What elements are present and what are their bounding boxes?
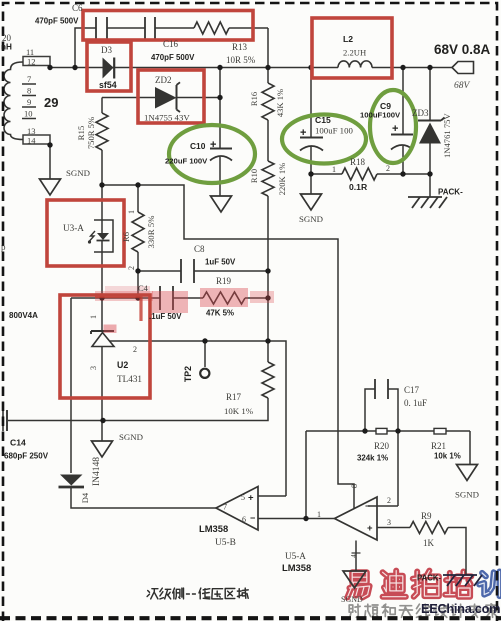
svg-text:3: 3 (387, 518, 391, 527)
svg-text:10: 10 (24, 109, 33, 119)
svg-text:SGND: SGND (119, 432, 143, 442)
svg-text:R19: R19 (216, 276, 232, 286)
svg-text:C17: C17 (404, 385, 420, 395)
svg-text:1N4761 75V: 1N4761 75V (442, 113, 452, 158)
svg-text:470pF 500V: 470pF 500V (151, 53, 195, 62)
svg-text:330R 5%: 330R 5% (146, 215, 156, 249)
svg-text:2.2UH: 2.2UH (343, 48, 366, 58)
svg-text:TP2: TP2 (183, 366, 193, 382)
svg-text:C10: C10 (190, 141, 206, 151)
svg-text:10K 1%: 10K 1% (224, 406, 254, 416)
svg-text:C8: C8 (194, 244, 205, 254)
svg-text:1: 1 (89, 315, 98, 319)
svg-text:IN4148: IN4148 (92, 457, 102, 486)
svg-text:−: − (250, 513, 255, 523)
svg-text:800V4A: 800V4A (9, 311, 38, 320)
svg-text:12: 12 (27, 57, 36, 67)
svg-text:L2: L2 (343, 34, 353, 44)
svg-text:R21: R21 (431, 441, 446, 451)
svg-text:13: 13 (27, 126, 36, 136)
svg-text:C15: C15 (315, 115, 331, 125)
svg-text:2: 2 (387, 496, 391, 505)
svg-text:3: 3 (89, 366, 98, 370)
svg-text:C14: C14 (10, 438, 26, 448)
svg-text:C6: C6 (72, 3, 83, 13)
svg-text:.1uF 50V: .1uF 50V (149, 312, 182, 321)
svg-text:750R 5%: 750R 5% (86, 117, 96, 149)
svg-text:D4: D4 (80, 492, 90, 503)
svg-text:8: 8 (350, 484, 359, 488)
svg-text:SGND: SGND (455, 490, 479, 500)
svg-text:1: 1 (127, 210, 136, 214)
svg-text:220K 1%: 220K 1% (277, 163, 287, 195)
svg-text:10R 5%: 10R 5% (226, 55, 256, 65)
svg-text:U5-A: U5-A (285, 551, 306, 561)
svg-text:7: 7 (223, 503, 227, 512)
svg-text:0.1R: 0.1R (349, 182, 368, 192)
svg-text:D3: D3 (101, 45, 112, 55)
svg-text:11: 11 (26, 47, 34, 57)
svg-text:PACK-: PACK- (438, 188, 463, 197)
svg-text:10k 1%: 10k 1% (434, 452, 461, 461)
svg-text:U3-A: U3-A (63, 223, 84, 233)
svg-text:6: 6 (242, 515, 246, 524)
svg-text:1uF 50V: 1uF 50V (205, 258, 236, 267)
svg-text:7: 7 (27, 74, 31, 84)
svg-text:+: + (367, 523, 373, 534)
svg-text:2: 2 (127, 266, 136, 270)
svg-text:nH: nH (1, 43, 12, 52)
svg-text:+: + (392, 123, 398, 135)
svg-text:sf54: sf54 (99, 80, 117, 90)
svg-text:PACK-: PACK- (417, 574, 442, 583)
svg-text:100uF100V: 100uF100V (360, 111, 401, 120)
svg-text:+: + (300, 127, 306, 139)
svg-text:TL431: TL431 (117, 374, 142, 384)
svg-text:1N4755 43V: 1N4755 43V (144, 113, 190, 123)
svg-text:C16: C16 (163, 39, 179, 49)
svg-text:SGND: SGND (66, 168, 90, 178)
svg-text:EEChina.com: EEChina.com (421, 601, 500, 616)
svg-text:680pF 250V: 680pF 250V (4, 452, 49, 461)
svg-text:LM358: LM358 (282, 562, 311, 573)
svg-text:SGND: SGND (299, 214, 323, 224)
svg-text:20: 20 (2, 33, 12, 43)
svg-text:1: 1 (332, 165, 336, 174)
svg-text:−: − (365, 501, 370, 511)
svg-text:R17: R17 (226, 392, 242, 402)
svg-text:R6: R6 (121, 232, 131, 242)
svg-text:14: 14 (27, 136, 36, 146)
svg-text:C9: C9 (380, 101, 391, 111)
svg-text:R13: R13 (232, 42, 248, 52)
svg-text:68V 0.8A: 68V 0.8A (434, 42, 491, 57)
svg-text:R15: R15 (76, 125, 86, 140)
svg-text:R20: R20 (374, 441, 390, 451)
svg-text:324k 1%: 324k 1% (357, 454, 388, 463)
svg-text:220uF 100V: 220uF 100V (165, 157, 208, 166)
svg-text:R9: R9 (421, 511, 432, 521)
svg-text:47K 5%: 47K 5% (206, 309, 234, 318)
svg-text:C4: C4 (138, 283, 149, 293)
svg-text:5: 5 (241, 493, 245, 502)
svg-text:p: p (1, 242, 6, 252)
svg-text:2: 2 (133, 345, 137, 354)
svg-text:1: 1 (317, 510, 321, 519)
svg-text:4: 4 (350, 554, 358, 558)
svg-text:29: 29 (44, 95, 58, 110)
svg-text:470pF 500V: 470pF 500V (35, 17, 79, 26)
svg-text:0. 1uF: 0. 1uF (404, 398, 427, 408)
svg-text:U5-B: U5-B (215, 538, 236, 548)
svg-text:LM358: LM358 (199, 523, 228, 534)
svg-text:8: 8 (27, 86, 31, 96)
svg-text:9: 9 (27, 97, 31, 107)
svg-text:43K 1%: 43K 1% (275, 89, 285, 117)
svg-text:R16: R16 (249, 92, 259, 106)
svg-text:ZD3: ZD3 (412, 108, 429, 118)
svg-text:+: + (210, 139, 216, 151)
svg-text:R10: R10 (249, 169, 259, 183)
svg-text:R18: R18 (350, 157, 366, 167)
svg-text:ZD2: ZD2 (155, 75, 172, 85)
svg-text:2: 2 (386, 164, 390, 173)
svg-text:+: + (248, 493, 254, 504)
svg-text:100uF 100: 100uF 100 (315, 126, 353, 136)
svg-text:SGND: SGND (341, 595, 363, 604)
svg-text:U2: U2 (117, 360, 128, 370)
svg-text:68V: 68V (454, 81, 471, 91)
svg-text:1K: 1K (423, 538, 435, 548)
